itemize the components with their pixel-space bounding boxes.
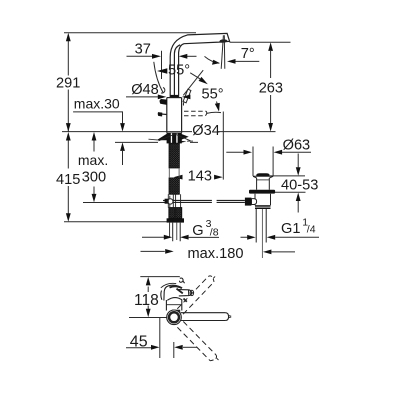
svg-text:Ø34: Ø34: [192, 123, 220, 139]
svg-text:300: 300: [82, 169, 106, 185]
svg-text:G: G: [192, 223, 203, 239]
svg-text:55°: 55°: [202, 87, 224, 103]
svg-text:263: 263: [259, 81, 283, 97]
svg-text:G1: G1: [281, 221, 300, 237]
svg-text:55°: 55°: [168, 63, 190, 79]
svg-text:/8: /8: [210, 226, 219, 238]
svg-text:Ø63: Ø63: [283, 138, 311, 154]
svg-text:37: 37: [135, 41, 151, 57]
svg-text:Ø48: Ø48: [131, 82, 159, 98]
svg-text:7°: 7°: [241, 46, 255, 62]
svg-text:max.180: max.180: [188, 246, 244, 262]
svg-text:118: 118: [134, 292, 159, 309]
svg-text:40-53: 40-53: [281, 178, 318, 194]
svg-text:415: 415: [56, 172, 80, 188]
svg-text:45: 45: [130, 334, 148, 351]
svg-text:max.30: max.30: [74, 96, 120, 112]
svg-text:max.: max.: [78, 152, 108, 168]
svg-text:291: 291: [56, 76, 80, 92]
svg-text:/4: /4: [307, 223, 316, 235]
svg-text:143: 143: [188, 169, 212, 185]
